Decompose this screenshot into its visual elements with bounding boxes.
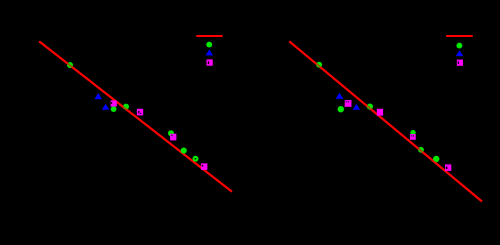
black bar in left legend square — [208, 61, 209, 64]
left legend triangle sample — [206, 49, 214, 55]
black dot2 in square S1r — [348, 101, 349, 102]
right panel data circle G2r — [338, 106, 344, 112]
left panel data circle G1 — [67, 62, 73, 68]
left legend square sample — [207, 59, 213, 65]
line overlay through circle G6r — [430, 158, 442, 168]
line overlay through circle G3 — [120, 104, 132, 113]
right panel data triangle T1r — [336, 93, 344, 99]
black bar in square S2 — [138, 111, 139, 113]
left panel data triangle T2 — [102, 104, 110, 110]
left panel data square S3 — [170, 134, 176, 141]
line overlay through circle G3r — [364, 103, 376, 113]
right legend square sample — [457, 60, 463, 66]
right panel data circle G3r — [367, 104, 373, 110]
black dot pair in square S1r — [346, 101, 347, 102]
left panel data circle G4 — [168, 130, 174, 136]
left legend circle sample — [206, 42, 212, 48]
right panel data circle G5r — [418, 147, 424, 153]
black dot in square S4 — [202, 165, 203, 167]
left panel data circle G6 — [193, 156, 199, 162]
black dot in circle G6 — [195, 158, 197, 160]
right panel fit line — [289, 41, 482, 201]
left legend red line sample — [196, 35, 222, 37]
right panel data square S3r — [410, 134, 416, 140]
left panel data triangle T1 — [95, 93, 103, 99]
black dot in square S4r — [446, 167, 448, 169]
right panel data square S2r — [377, 109, 383, 116]
dark dot pair in square S3r — [411, 135, 412, 136]
left panel data square S1 — [111, 100, 117, 106]
right panel data circle G4r — [410, 130, 415, 135]
right panel data circle G1r — [316, 62, 322, 68]
right panel data triangle T2r — [353, 104, 360, 110]
dark dot in square S3 — [171, 135, 172, 136]
right legend triangle sample — [456, 50, 464, 56]
left panel data square S4 — [201, 163, 208, 170]
right legend circle sample — [456, 43, 462, 49]
line overlay through circle G1 — [64, 61, 76, 70]
left panel data square S2 — [137, 109, 143, 116]
black dot in square S2 — [140, 113, 141, 114]
line overlay through circle G5r — [415, 146, 427, 156]
black bar in right legend square — [458, 61, 459, 64]
right legend red line sample — [446, 35, 473, 37]
right panel data square S4r — [445, 164, 451, 171]
left panel fit line — [39, 41, 232, 191]
line overlay through circle G1r — [313, 61, 325, 71]
left panel data circle G3 — [123, 104, 129, 110]
left panel data circle G2 — [111, 106, 117, 112]
dark dot2 in square S3r — [413, 135, 414, 136]
right panel data square S1r — [345, 100, 352, 107]
left panel data circle G5 — [181, 148, 187, 154]
right panel data circle G6r — [433, 156, 439, 162]
black dot in square S1 — [111, 102, 112, 104]
